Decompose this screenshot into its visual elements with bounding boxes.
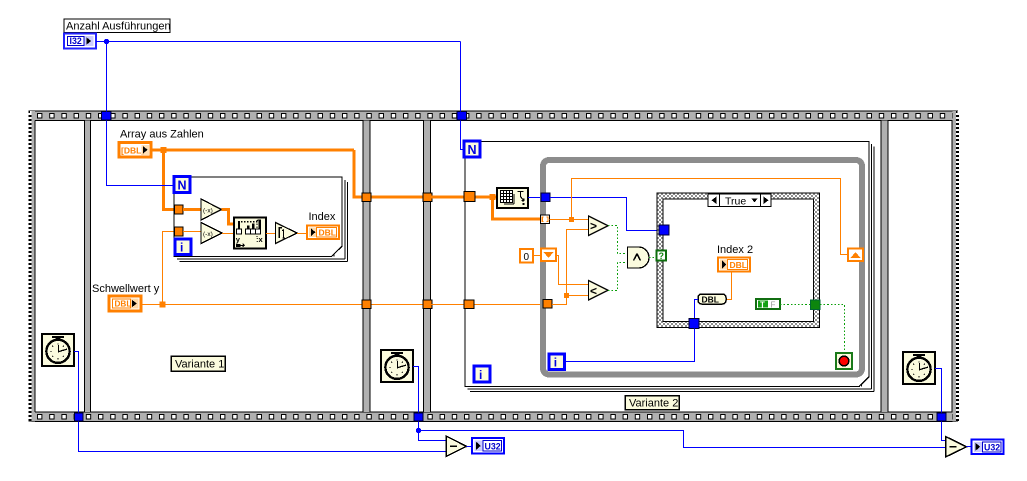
svg-text:Schwellwert y: Schwellwert y: [92, 283, 160, 295]
constant boolean True: [756, 299, 780, 309]
tunnel blue on case bottom border: [689, 319, 699, 329]
tunnel array on for-loop border: [464, 192, 475, 202]
svg-text:Variante 1: Variante 1: [175, 358, 224, 370]
separator frame4/frame5: [882, 121, 888, 413]
wire schwellwert pass-through y=304: [370, 304, 424, 306]
separator frame2/frame3: [364, 121, 370, 413]
for-loop structure (stacked pages): [465, 142, 874, 392]
wire blue while i to case bottom tunnel: [565, 329, 695, 362]
function less-than: [589, 281, 609, 301]
svg-text:Variante 2: Variante 2: [629, 397, 678, 409]
svg-text:Anzahl Ausführungen: Anzahl Ausführungen: [66, 21, 171, 33]
label Variante 1: [171, 356, 225, 371]
svg-text:F: F: [771, 300, 776, 309]
svg-text:Array aus Zahlen: Array aus Zahlen: [120, 129, 204, 141]
wire blue from top tunnel to N terminal: [107, 121, 175, 186]
constant 0: [520, 249, 533, 263]
wire clock3 tick to right subtract: [419, 431, 946, 448]
tunnel blue on top border (frame2, from I32): [102, 112, 112, 121]
shift register right terminal (up arrow): [848, 249, 863, 262]
svg-text:True: True: [725, 195, 746, 207]
tunnel blue on top border (frame4, from I32): [457, 112, 467, 121]
function and gate: [628, 247, 650, 268]
indicator U32 right: [972, 440, 1004, 455]
fold corner bottom-right: [331, 246, 343, 258]
function Threshold 1D Array: [234, 218, 266, 249]
sequence top film band: [29, 111, 958, 121]
function subtract right: [946, 437, 967, 458]
wire boolean gt to and: [608, 226, 628, 254]
tunnel schwellwert on sep frame2/3: [362, 300, 371, 309]
svg-text:U32: U32: [485, 442, 501, 452]
node junction dot on I32 wire: [104, 39, 109, 44]
indicator DBL (Index 2): [718, 258, 750, 272]
function negate2 (-x): [201, 223, 222, 244]
wire clock3 tick down: [419, 422, 447, 441]
wire element from [] tunnel to dot1 and gt: [550, 219, 589, 221]
terminal i (inner loop): [175, 239, 191, 255]
svg-text:U32: U32: [984, 442, 1000, 452]
wire boolean lt to and: [608, 263, 628, 291]
wire tunnel1 to negate1: [183, 208, 201, 211]
wire I32 down to frame2 top tunnel: [106, 42, 108, 112]
wire boolean and to selector: [649, 257, 657, 259]
wire clock1 tick to subtract1 bottom input: [79, 422, 447, 452]
tunnel blue on bottom border (frame1 clock): [75, 413, 84, 421]
wire clock5 to bottom tunnel: [935, 369, 942, 413]
wire schwellwert y=304 into for loop: [432, 304, 544, 306]
wait-ms clock function (frame 5): [903, 352, 935, 384]
tunnel schwellwert on sep frame3/4: [423, 300, 432, 309]
wire I32 down to frame4 top tunnel: [460, 42, 462, 112]
wire blue maxmin out to while tunnel: [528, 197, 541, 199]
sequence left edge: [31, 111, 35, 422]
wire negate2 to threshold node: [222, 233, 234, 235]
svg-text:DBL: DBL: [115, 299, 132, 308]
tunnel array on sep frame2/3: [362, 193, 371, 202]
wait-ms clock function (frame 3): [381, 350, 413, 382]
wire clock5 tick to subtract2 top input: [942, 422, 946, 441]
function round-up ceil: [276, 223, 298, 244]
wire schwellwert from tunnel to comparisons: [543, 300, 552, 309]
node junction dot array wire: [161, 147, 167, 153]
wire blue from top tunnel to for N: [461, 121, 465, 150]
wire boolean true to case tunnel: [780, 304, 811, 306]
wire I32 horizontal to x=460: [96, 41, 461, 43]
wire shift reg prev value to lt top input: [556, 256, 589, 285]
sequence right edge: [952, 111, 956, 422]
tunnel green on case right border: [811, 300, 821, 310]
indicator DBL (Index): [307, 226, 339, 240]
label Anzahl Ausführungen: [64, 19, 170, 33]
wire clock1 to bottom tunnel: [74, 352, 79, 413]
wire array into maxmin node: [493, 196, 498, 199]
wire array branch down to [] tunnel: [493, 197, 542, 219]
separator frame1/frame2: [85, 121, 90, 413]
wire array down to sep tunnel at y=197: [354, 150, 363, 197]
wire array branch down to inner tunnel1: [164, 150, 175, 210]
wire clock3 to bottom tunnel: [413, 367, 419, 413]
wire threshold node to ceil: [266, 233, 276, 235]
case selector label True: [708, 194, 771, 207]
control DBL scalar (Schwellwert y): [109, 296, 141, 311]
node junction dot array (to maxmin + down): [490, 194, 496, 200]
tunnel blue on case left border: [659, 225, 669, 235]
wire blue i from case bottom tunnel up to conversion: [695, 300, 699, 320]
function negate1 (-x): [201, 199, 222, 220]
svg-text:N: N: [178, 179, 187, 193]
node junction dot clock3: [416, 428, 421, 433]
node junction dot1 element: [569, 217, 574, 222]
wire tunnel2 to negate2: [183, 231, 201, 233]
wire subtract1 to U32: [467, 446, 473, 448]
shift register left terminal (down arrow): [541, 249, 556, 262]
wire element up and over case to shift register right: [572, 179, 849, 255]
svg-text:Index: Index: [309, 211, 336, 223]
indicator U32 left: [472, 438, 504, 454]
function array max-min node: [497, 188, 528, 208]
svg-text:(-x): (-x): [203, 231, 213, 238]
label Variante 2: [625, 396, 679, 410]
svg-text:DBL: DBL: [730, 260, 747, 270]
svg-text:Index 2: Index 2: [717, 244, 753, 256]
terminal i (for loop): [474, 366, 490, 382]
svg-text:i: i: [479, 368, 482, 382]
terminal N (for loop): [464, 141, 480, 157]
tunnel2 on inner structure (schwellwert in): [175, 227, 184, 236]
wire blue inside while to case tunnel: [550, 198, 659, 231]
svg-text:T: T: [760, 300, 765, 309]
separator frame3/frame4: [424, 121, 430, 413]
tunnel blue on while border (index in): [541, 193, 550, 202]
terminal N (inner loop): [174, 177, 190, 193]
tunnel blue on bottom border (frame5 clock): [937, 413, 946, 421]
inner for-structure (Variante 1) stacked pages: [174, 177, 348, 261]
svg-text:DBL: DBL: [319, 228, 336, 238]
tunnel auto-index [] on while border: [541, 215, 550, 224]
wait-ms clock function (frame 1): [42, 334, 74, 366]
wire orange conversion to Index 2 indicator: [726, 272, 732, 300]
svg-text:<: <: [590, 284, 597, 298]
svg-text:(-x): (-x): [203, 208, 213, 215]
control DBL array (Array aus Zahlen): [119, 143, 151, 158]
function greater-than: [589, 216, 609, 236]
tunnel schwellwert on for-loop border: [464, 300, 474, 309]
terminal i (while loop): [549, 354, 565, 370]
tunnel blue on bottom border (frame3 clock): [414, 413, 423, 421]
svg-text:[DBL]: [DBL]: [121, 145, 144, 155]
svg-text:0: 0: [524, 252, 530, 263]
svg-text:N: N: [468, 143, 477, 157]
case structure border (checkered): [657, 193, 820, 328]
svg-text:?: ?: [659, 251, 665, 261]
wire boolean to while stop terminal: [820, 305, 845, 354]
wire negate1 out, jog down into threshold node: [222, 210, 235, 225]
tunnel array on sep frame3/4: [423, 193, 432, 202]
node junction dot schwellwert: [160, 302, 166, 308]
wire subtract2 to U32: [967, 446, 972, 448]
case selector ? terminal: [657, 251, 667, 261]
wire array pass-through y=197: [370, 196, 424, 199]
sequence bottom film band: [29, 412, 958, 422]
svg-text:I32: I32: [70, 36, 82, 46]
svg-text:DBL: DBL: [702, 295, 719, 305]
svg-text:i: i: [554, 356, 557, 370]
function to-DBL conversion: [698, 294, 726, 305]
wire schwellwert to lt bottom input: [567, 295, 589, 297]
wire ceil to Index indicator: [297, 233, 307, 235]
function subtract left: [446, 436, 467, 457]
svg-text:>: >: [590, 219, 597, 233]
wire schwellwert branch up to inner tunnel2: [163, 232, 175, 305]
node junction dot2 schwellwert: [564, 293, 569, 298]
while-loop structure border: [543, 160, 862, 375]
fold corner bottom-right of for-loop: [859, 376, 871, 388]
control I32 (Anzahl Ausführungen): [64, 34, 96, 49]
wire array horizontal y=150: [151, 149, 354, 152]
wire schwellwert horizontal y=304: [141, 304, 363, 306]
tunnel1 on inner structure (array in): [175, 205, 184, 214]
wire array y=197 into for loop: [432, 196, 493, 199]
svg-text:i: i: [180, 241, 183, 255]
wire 0 to shift register left: [533, 255, 541, 257]
while stop terminal: [836, 353, 852, 369]
